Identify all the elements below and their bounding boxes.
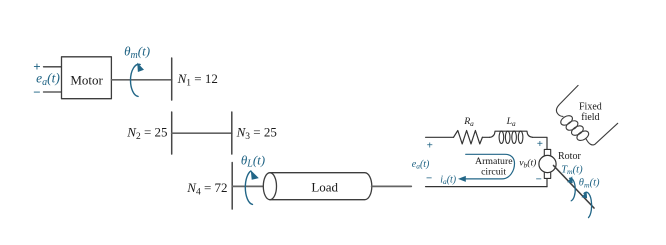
svg-text:circuit: circuit [481,167,506,178]
wire load output shaft [372,185,412,187]
svg-text:−: − [33,85,40,100]
gear N2 [171,112,173,154]
gear N3 [231,112,233,154]
wire rotor bottom lead [546,178,548,186]
svg-text:vb(t): vb(t) [519,158,536,170]
svg-text:θm(t): θm(t) [124,44,150,61]
wire resistor to inductor [482,136,489,138]
inductor La [490,131,533,143]
rotation arrow Tm [567,176,575,201]
svg-text:field: field [581,112,599,123]
svg-text:Load: Load [311,179,338,194]
wire bottom lead to motor [44,91,62,93]
svg-text:−: − [536,173,542,185]
motor block [62,57,112,99]
svg-text:Ra: Ra [463,116,474,128]
svg-text:N1 = 12: N1 = 12 [177,71,218,88]
resistor Ra [454,131,483,144]
svg-text:Motor: Motor [70,72,103,87]
svg-text:ia(t): ia(t) [440,174,457,186]
svg-text:θL(t): θL(t) [241,152,265,169]
rotor brush top [544,149,550,156]
fixed field winding [556,85,617,145]
wire shaft N4 to load [232,185,268,187]
wire motor shaft [112,79,172,81]
gear N1 [171,58,173,100]
svg-text:La: La [506,116,516,128]
wire bottom [426,186,547,188]
load cylinder [270,173,372,200]
svg-text:+: + [427,139,433,151]
svg-text:N3 = 25: N3 = 25 [236,125,277,142]
svg-text:N4 = 72: N4 = 72 [186,180,227,197]
svg-text:−: − [426,172,432,184]
armature circuit loop arrow [458,154,515,182]
wire shaft N2 to N3 [172,132,232,134]
svg-text:Armature: Armature [475,156,513,167]
svg-text:N2 = 25: N2 = 25 [126,125,167,142]
gear N4 [231,163,233,210]
svg-text:+: + [537,138,543,150]
rotation arrow theta_m [130,63,144,97]
wire top lead to motor [44,66,62,68]
svg-text:Rotor: Rotor [558,151,581,162]
wire inductor to rotor [533,137,548,149]
wire top left [426,136,454,138]
rotor shaft diagonal [554,166,595,209]
svg-text:ea(t): ea(t) [412,159,430,171]
rotation arrow theta_L [245,170,259,204]
svg-text:θm(t): θm(t) [579,178,600,190]
rotor brush bottom [544,172,550,179]
svg-text:Tm(t): Tm(t) [561,164,583,176]
rotor armature circle [539,155,556,172]
rotation arrow theta_m right [582,191,592,217]
